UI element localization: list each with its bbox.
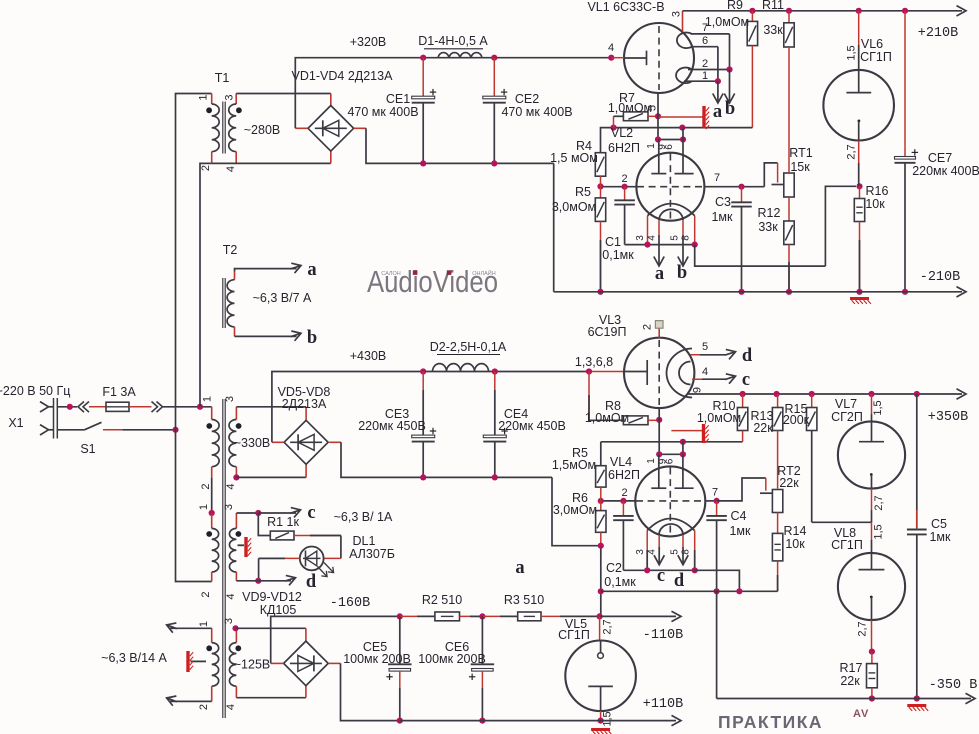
wire T1 pin2 feeder <box>200 163 212 406</box>
svg-text:D1-4Н-0,5 А: D1-4Н-0,5 А <box>418 34 488 48</box>
svg-text:10к: 10к <box>865 197 885 211</box>
bridge1 minus wire <box>354 127 366 129</box>
VL4 pin7 wire <box>705 500 716 502</box>
chassis screen bar VL4 <box>671 430 702 432</box>
resistor R2 <box>435 612 460 621</box>
svg-text:1мк: 1мк <box>729 524 751 538</box>
svg-text:4: 4 <box>608 42 614 54</box>
svg-text:1: 1 <box>198 621 210 627</box>
node CE3 top <box>420 368 426 374</box>
wire T1 pin3 to bridge1 <box>236 93 331 95</box>
svg-text:c: c <box>742 370 750 390</box>
VL3 pin2 top terminal <box>658 328 660 338</box>
LED emission arrows <box>318 567 327 577</box>
node R8 tap <box>586 368 592 374</box>
capacitor CE2 <box>493 58 495 96</box>
wire T1 pin4 to bridge1 <box>212 162 331 164</box>
svg-text:С3: С3 <box>715 195 731 209</box>
svg-text:X1: X1 <box>8 416 23 430</box>
VL1 grid bar inside <box>624 57 646 59</box>
svg-text:d: d <box>742 346 753 366</box>
rectifier bridge VD5-VD8 <box>284 420 328 464</box>
VL1 pin7 wire <box>691 33 730 35</box>
transformer T1 primary winding <box>211 94 213 105</box>
svg-text:F1 3А: F1 3А <box>102 385 136 399</box>
transformer T1 core <box>222 102 224 154</box>
svg-text:R3 510: R3 510 <box>504 593 544 607</box>
svg-text:С2: С2 <box>606 561 622 575</box>
tube VL7 SG2P <box>871 394 873 414</box>
svg-text:1мк: 1мк <box>711 210 733 224</box>
VL4 cathode dome <box>647 519 694 531</box>
svg-text:2: 2 <box>642 324 654 330</box>
svg-text:+430В: +430В <box>350 349 387 363</box>
T2 core main <box>222 399 224 718</box>
svg-text:1,5 мОм: 1,5 мОм <box>550 151 598 165</box>
VL4 heater arrows c d <box>658 547 660 563</box>
svg-text:+110В: +110В <box>643 697 684 712</box>
svg-text:a: a <box>515 558 524 578</box>
wire mains top <box>57 406 77 408</box>
svg-text:6: 6 <box>702 35 708 47</box>
wire VL7 cathode to VL8 <box>812 521 872 523</box>
connector X1 <box>40 402 49 412</box>
wire C4 to -350 rail <box>716 591 718 698</box>
T2 primary winding upper <box>211 407 213 420</box>
svg-text:4: 4 <box>225 483 237 489</box>
svg-text:4: 4 <box>646 235 657 241</box>
resistor R5 <box>595 198 605 222</box>
svg-text:a: a <box>307 260 316 280</box>
node CE1 top <box>420 55 426 61</box>
wire to RT1 wiper <box>764 163 777 187</box>
svg-text:R17: R17 <box>840 661 863 675</box>
resistor R12 <box>788 197 790 221</box>
fuse F1 <box>106 402 129 411</box>
node CE4 top <box>492 368 498 374</box>
capacitor CE3 <box>422 372 424 436</box>
VL1 pin4 wire <box>608 55 614 61</box>
VL4 cathode line <box>623 569 694 571</box>
svg-text:СЕ2: СЕ2 <box>515 92 539 106</box>
VL4 pin stubs <box>646 531 648 571</box>
svg-text:2Д213А: 2Д213А <box>282 397 327 411</box>
resistor R13 <box>777 394 779 408</box>
svg-text:7: 7 <box>714 172 720 184</box>
svg-text:R11: R11 <box>762 0 784 12</box>
svg-text:c: c <box>307 503 315 523</box>
capacitor C5 <box>916 394 918 528</box>
resistor R17 <box>871 652 873 664</box>
resistor R4 <box>595 153 605 177</box>
node VL5 top <box>597 613 603 619</box>
svg-text:1: 1 <box>198 94 210 100</box>
svg-text:2: 2 <box>198 704 210 710</box>
svg-text:2,7: 2,7 <box>846 144 858 159</box>
svg-text:1: 1 <box>198 504 210 510</box>
wire T2 pin3c to bridge3 <box>236 627 270 629</box>
svg-text:33к: 33к <box>758 220 778 234</box>
node 591 tee <box>598 588 604 594</box>
node VL5 bottom <box>598 718 604 724</box>
node C5 bottom <box>914 695 920 701</box>
VL4 heater dome <box>659 524 683 535</box>
svg-text:220мк 400В: 220мк 400В <box>912 164 979 178</box>
wire T2 pin4b with arrow d <box>236 580 258 582</box>
-350V rail <box>717 698 971 700</box>
tube VL2 6N2P <box>636 153 704 221</box>
resistor R3 <box>518 612 541 621</box>
svg-text:VL6: VL6 <box>861 37 883 51</box>
T2 secondary 6.3V/1A winding <box>235 513 237 528</box>
-210V rail <box>554 291 962 293</box>
svg-text:1,0мОм: 1,0мОм <box>585 411 629 425</box>
node pin1-pin6 <box>715 78 721 84</box>
VL4 grid tees <box>658 454 660 488</box>
svg-text:ОНЛАЙН: ОНЛАЙН <box>472 269 495 277</box>
svg-text:3: 3 <box>635 235 646 241</box>
node d junction <box>255 578 261 584</box>
tube VL5 SG1P <box>599 616 601 640</box>
svg-text:~6,3 В/ 1А: ~6,3 В/ 1А <box>334 510 393 524</box>
svg-text:~280В: ~280В <box>244 123 281 137</box>
tube VL3 6S19P <box>624 338 694 408</box>
T2 primary winding lower <box>211 513 213 528</box>
node 739 tee <box>736 588 742 594</box>
VL1 pin3 wire to +210V rail <box>682 11 684 32</box>
svg-text:1,5мОм: 1,5мОм <box>552 458 596 472</box>
svg-text:6: 6 <box>664 144 675 150</box>
+110V rail <box>400 720 676 722</box>
bridge2 plus wire to +430V rail <box>272 441 283 443</box>
chassis ground -350 <box>907 704 926 707</box>
svg-text:R12: R12 <box>758 206 781 220</box>
node C4 bottom <box>714 588 720 594</box>
svg-text:СГ1П: СГ1П <box>831 538 863 552</box>
svg-text:10к: 10к <box>785 537 805 551</box>
T2 secondary ~330V <box>235 407 237 420</box>
svg-text:VL2: VL2 <box>611 126 633 140</box>
svg-text:d: d <box>674 571 685 591</box>
svg-text:6Н2П: 6Н2П <box>608 141 640 155</box>
inductor D1 <box>438 53 482 58</box>
svg-text:3,0мОм: 3,0мОм <box>552 200 596 214</box>
tube VL6 SG1P <box>856 8 862 14</box>
bridge3 minus wire to -160V rail <box>271 662 284 664</box>
svg-text:0,1мк: 0,1мк <box>604 575 636 589</box>
svg-text:D2-2,5Н-0,1А: D2-2,5Н-0,1А <box>430 340 507 354</box>
tube VL4 6N2P <box>635 466 705 536</box>
chassis screen bar VL1 <box>658 116 703 118</box>
-160V rail with R2 R3 <box>397 613 403 619</box>
svg-text:DL1: DL1 <box>353 534 376 548</box>
node VL8 bottom <box>869 649 875 655</box>
svg-text:VD9-VD12: VD9-VD12 <box>242 590 302 604</box>
capacitor CE4 <box>494 372 496 436</box>
+210V rail arrow <box>957 6 967 16</box>
svg-text:5: 5 <box>647 105 659 111</box>
svg-text:3: 3 <box>635 549 646 555</box>
node R17 bottom <box>869 695 875 701</box>
capacitor CE5 <box>399 616 401 664</box>
rectifier bridge VD9-VD12 <box>284 641 329 686</box>
svg-text:a: a <box>713 102 722 122</box>
resistor R7 <box>613 116 615 127</box>
svg-text:22к: 22к <box>840 674 860 688</box>
resistor R10 <box>742 394 744 408</box>
svg-text:1,3,6,8: 1,3,6,8 <box>575 355 613 369</box>
svg-text:8: 8 <box>680 549 691 555</box>
svg-text:3: 3 <box>224 94 236 100</box>
svg-text:1мк: 1мк <box>929 530 951 544</box>
wire left feeder T1 pin1 <box>176 94 212 430</box>
tube VL1 6C33C-B <box>624 23 694 93</box>
svg-text:c: c <box>657 566 665 586</box>
svg-text:R9: R9 <box>727 0 743 12</box>
VL2 heater dome <box>659 209 683 220</box>
svg-text:100мк 200В: 100мк 200В <box>343 652 411 666</box>
svg-text:-160В: -160В <box>330 596 371 611</box>
svg-text:4: 4 <box>225 593 237 599</box>
svg-text:1,5: 1,5 <box>872 400 884 415</box>
VL2 cathode line <box>625 244 695 246</box>
capacitor C3 <box>741 187 743 203</box>
trimmer RT1 <box>784 173 794 197</box>
svg-text:VL4: VL4 <box>610 455 632 469</box>
node T1 pin2 junction <box>197 404 203 410</box>
resistor R6 <box>596 511 606 533</box>
VL2 pin7 wire <box>704 186 764 188</box>
svg-text:С4: С4 <box>731 509 747 523</box>
svg-text:d: d <box>306 572 317 592</box>
VL1 bottom wire to VL2 grid row <box>657 93 659 140</box>
node grid riser 2 <box>680 439 686 445</box>
wire to fuse <box>89 406 106 408</box>
svg-text:9: 9 <box>692 387 704 393</box>
svg-text:VL7: VL7 <box>835 397 857 411</box>
svg-text:-110В: -110В <box>643 628 684 643</box>
svg-text:1,0мОм: 1,0мОм <box>705 15 749 29</box>
capacitor CE6 <box>481 616 483 664</box>
svg-text:R14: R14 <box>784 524 807 538</box>
svg-text:~330В: ~330В <box>234 436 271 450</box>
chassis bar 14A winding <box>191 660 207 662</box>
svg-text:VD1-VD4 2Д213А: VD1-VD4 2Д213А <box>292 69 394 83</box>
VL4 grid row <box>659 453 683 455</box>
node CE2 bottom <box>491 160 497 166</box>
-110V output <box>600 615 676 617</box>
R5 to -210 rail <box>600 221 602 291</box>
node S1 junction <box>172 427 178 433</box>
svg-text:ПРАКТИКА: ПРАКТИКА <box>718 712 823 732</box>
R9 bottom wire to bias line <box>751 46 753 128</box>
svg-text:b: b <box>307 328 317 348</box>
VL1 heater hooks <box>677 33 692 49</box>
capacitor C1 <box>624 187 626 201</box>
svg-text:8: 8 <box>680 235 691 241</box>
svg-text:СГ2П: СГ2П <box>831 410 863 424</box>
LED left lead <box>259 557 300 559</box>
svg-text:~6,3 В/7 А: ~6,3 В/7 А <box>253 291 312 305</box>
svg-text:RT1: RT1 <box>789 146 812 160</box>
svg-text:3: 3 <box>224 396 236 402</box>
bias line y127 <box>601 128 753 153</box>
svg-text:220мк 450В: 220мк 450В <box>358 419 426 433</box>
resistor R11 <box>786 8 792 14</box>
svg-text:САЛОН: САЛОН <box>381 271 401 277</box>
chassis ground VL5 <box>591 728 610 731</box>
svg-text:S1: S1 <box>80 442 95 456</box>
svg-text:15к: 15к <box>790 160 810 174</box>
VL3 heater arcs <box>667 349 693 398</box>
svg-text:6: 6 <box>665 458 676 464</box>
wire 430V minus to R6 node <box>552 477 601 545</box>
wire left feeder down to T2 winding <box>176 430 212 582</box>
node CE1 bottom <box>420 160 426 166</box>
VL2 pin stubs <box>647 216 649 245</box>
svg-text:470 мк 400В: 470 мк 400В <box>501 105 572 119</box>
svg-text:+350В: +350В <box>928 410 969 425</box>
T2 primary interconnect <box>211 478 213 513</box>
svg-text:4: 4 <box>702 366 708 378</box>
line y591 to R14 <box>601 590 778 592</box>
svg-text:1,0мОм: 1,0мОм <box>697 411 741 425</box>
svg-text:АV: АV <box>853 708 869 720</box>
node R4-R5 <box>597 183 603 189</box>
svg-text:T2: T2 <box>223 243 238 257</box>
svg-text:T1: T1 <box>215 71 230 85</box>
tube VL8 SG1P <box>871 522 873 540</box>
svg-text:1: 1 <box>646 458 657 464</box>
inductor D2 <box>433 364 489 372</box>
node mains dot <box>67 404 73 410</box>
svg-text:3: 3 <box>223 618 235 624</box>
svg-text:2: 2 <box>200 483 212 489</box>
bridge3 plus wire to +110V rail <box>328 662 340 664</box>
VL2 pin8 wire to VL6 cathode <box>695 245 826 267</box>
capacitor C2 <box>622 501 624 516</box>
switch S1 <box>84 422 101 430</box>
capacitor CE1 <box>422 58 424 96</box>
svg-text:6Н2П: 6Н2П <box>608 468 640 482</box>
svg-text:+320В: +320В <box>350 35 387 49</box>
wire fuse to transformers <box>129 406 152 408</box>
svg-text:СГ1П: СГ1П <box>860 50 892 64</box>
svg-text:СГ1П: СГ1П <box>558 628 590 642</box>
svg-text:b: b <box>677 263 687 283</box>
node CE2 top <box>491 55 497 61</box>
resistor R16 <box>856 183 862 189</box>
svg-text:3: 3 <box>223 504 235 510</box>
svg-text:4: 4 <box>225 704 237 710</box>
svg-text:2,7: 2,7 <box>873 495 885 510</box>
VL2 grid tees <box>658 140 660 174</box>
node R8 right <box>656 417 662 423</box>
bridge2 minus wire <box>329 441 341 443</box>
svg-text:2: 2 <box>621 173 627 185</box>
svg-text:1: 1 <box>702 70 708 82</box>
heater arrows a b <box>717 81 719 101</box>
bridge1 plus wire to +320V rail <box>295 127 307 129</box>
svg-text:2: 2 <box>702 58 708 70</box>
T2 bottom winding ~125V <box>235 628 237 642</box>
node R16 bottom <box>856 289 862 295</box>
svg-text:3: 3 <box>671 11 683 17</box>
svg-text:R2 510: R2 510 <box>422 593 462 607</box>
wire T2 pin4c to bridge3 <box>236 697 306 699</box>
rail dots <box>740 391 746 397</box>
VL3 pin4 wire with arrow c <box>692 378 726 380</box>
svg-text:7: 7 <box>712 487 718 499</box>
capacitor CE7 <box>902 8 908 14</box>
svg-text:470 мк 400В: 470 мк 400В <box>347 105 418 119</box>
svg-text:~125В: ~125В <box>234 658 271 672</box>
svg-text:5: 5 <box>669 549 680 555</box>
VL1 pin1 wire <box>684 80 718 82</box>
svg-text:200к: 200к <box>783 413 810 427</box>
svg-text:5: 5 <box>669 235 680 241</box>
svg-text:R1 1к: R1 1к <box>267 515 299 529</box>
svg-text:22к: 22к <box>753 421 773 435</box>
wire mains bottom to switch <box>57 429 84 431</box>
wire T2 pin4 to bridge2 <box>233 474 239 480</box>
T2 heater winding 6.3V/7A <box>234 272 236 280</box>
node R7 drop <box>610 125 616 131</box>
svg-text:АЛ307Б: АЛ307Б <box>349 547 395 561</box>
R6 bottom node <box>600 532 602 556</box>
svg-text:100мк 200В: 100мк 200В <box>418 652 486 666</box>
svg-text:a: a <box>655 264 664 284</box>
VL1 pin6 wire <box>693 46 718 48</box>
wire T2 pin3b with arrow c <box>236 512 258 514</box>
svg-text:1: 1 <box>202 396 214 402</box>
svg-text:5: 5 <box>702 341 708 353</box>
resistor R15 <box>811 394 813 408</box>
LED DL1 <box>340 536 342 559</box>
resistor R9 <box>749 8 755 14</box>
svg-text:2: 2 <box>200 165 212 171</box>
svg-text:2: 2 <box>621 487 627 499</box>
bias line y441.8 <box>601 441 743 443</box>
T2 bottom winding 6.3V/14A <box>211 628 213 642</box>
VL1 pin2 wire <box>688 69 730 71</box>
svg-text:R16: R16 <box>866 184 889 198</box>
svg-text:-350 В: -350 В <box>929 678 978 693</box>
svg-text:C5: C5 <box>931 517 947 531</box>
svg-text:2,7: 2,7 <box>602 619 614 634</box>
node pin2-pin7 <box>726 66 732 72</box>
6.3V/14A output arrows <box>170 627 212 629</box>
svg-text:СЕ7: СЕ7 <box>928 151 952 165</box>
resistor R14 <box>777 513 779 534</box>
svg-text:~6,3 В/14 А: ~6,3 В/14 А <box>101 651 167 665</box>
svg-text:СЕ1: СЕ1 <box>386 92 410 106</box>
screen bar T2 <box>238 544 245 546</box>
resistor R1 <box>258 513 270 536</box>
svg-text:1,5: 1,5 <box>873 524 885 539</box>
svg-text:R5: R5 <box>575 185 591 199</box>
svg-text:+210В: +210В <box>918 26 959 41</box>
svg-text:1,5: 1,5 <box>846 45 858 60</box>
detachable contact chevrons <box>78 402 84 413</box>
svg-text:3,0мОм: 3,0мОм <box>553 503 597 517</box>
VL3 grid bar inside <box>624 371 647 373</box>
svg-text:1,5: 1,5 <box>602 711 614 726</box>
VL3 pin9 wire +350V rail <box>687 393 962 395</box>
svg-text:0,1мк: 0,1мк <box>602 248 634 262</box>
VL2 cathode dome <box>648 204 695 216</box>
wire to RT2 wiper <box>717 478 766 501</box>
